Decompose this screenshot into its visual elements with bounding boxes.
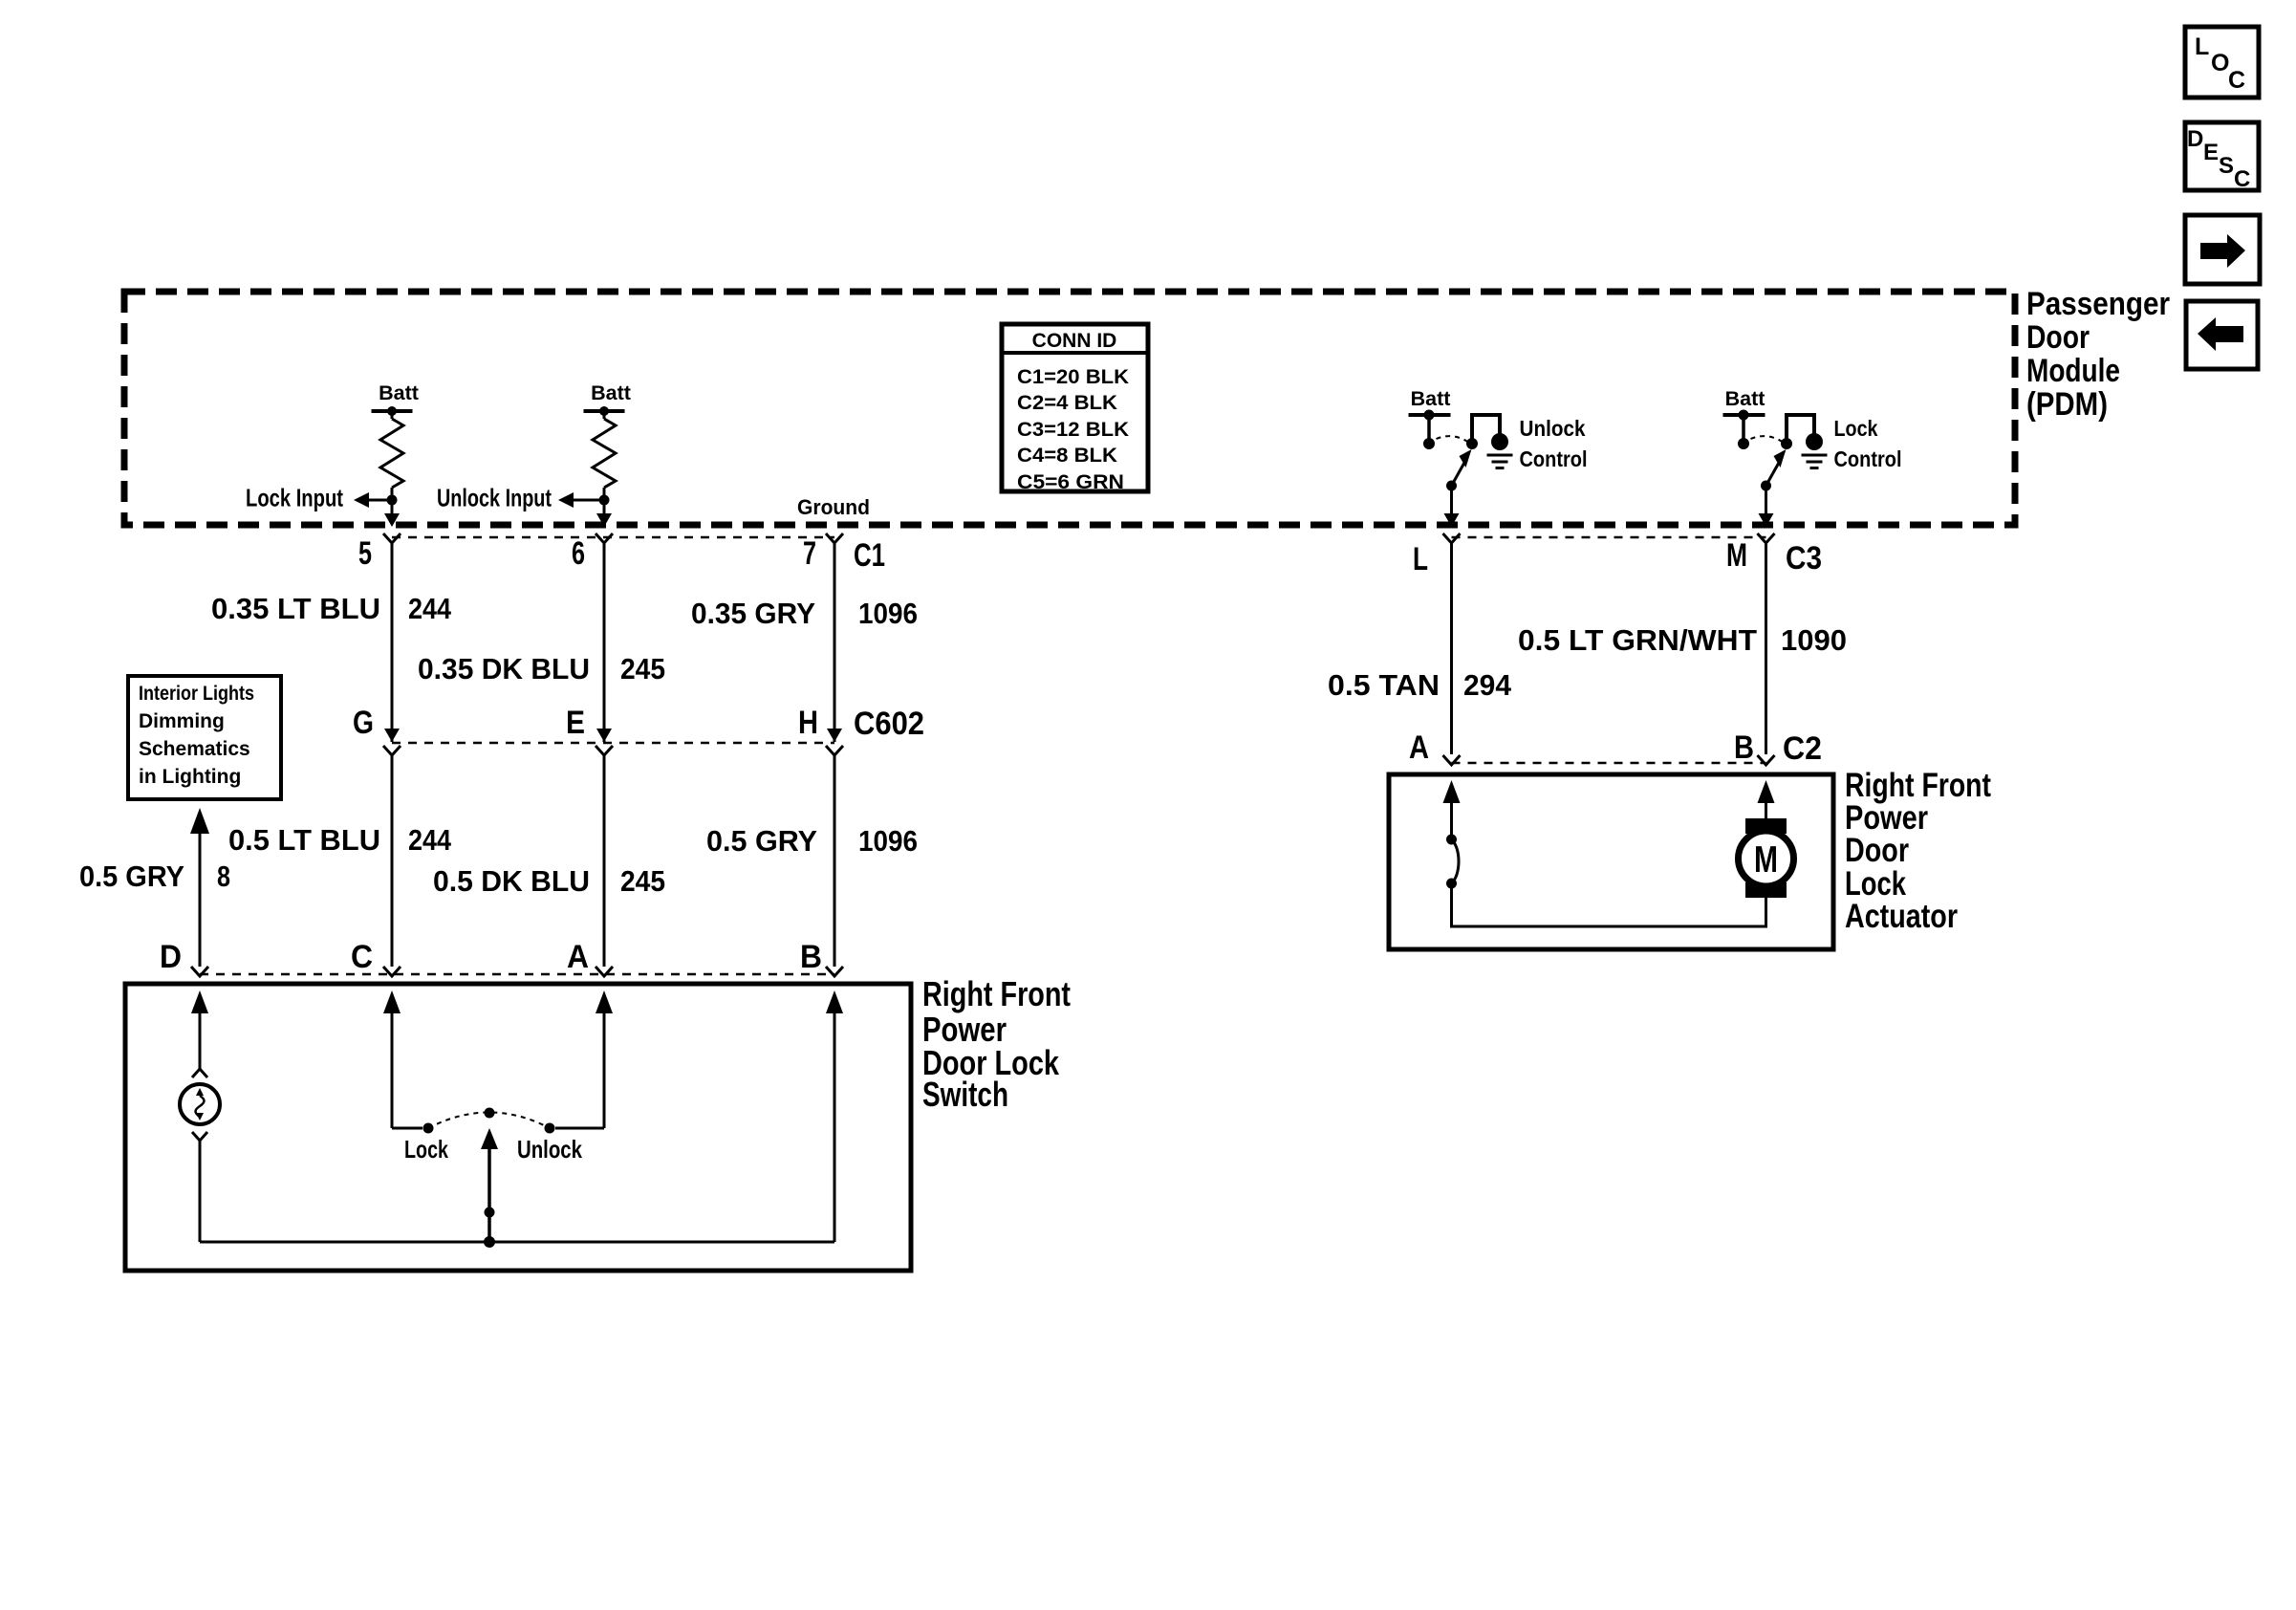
connector C1 pin 5 chevron	[383, 533, 401, 543]
C602 male pin arrow	[827, 729, 842, 742]
svg-text:C2=4 BLK: C2=4 BLK	[1017, 392, 1117, 414]
button LOC	[2185, 27, 2259, 98]
Batt feed bar lock-drive	[1723, 413, 1765, 417]
switch arm unlock-drive	[1452, 462, 1465, 486]
svg-text:1090: 1090	[1781, 623, 1847, 657]
svg-text:0.5 LT BLU: 0.5 LT BLU	[228, 823, 380, 857]
svg-text:0.5 DK BLU: 0.5 DK BLU	[433, 864, 590, 898]
svg-text:D: D	[2187, 126, 2203, 152]
PDM name label	[2026, 286, 2170, 423]
wire 294	[1450, 543, 1453, 754]
wire 1096 lower	[834, 755, 836, 967]
svg-text:Unlock: Unlock	[517, 1135, 582, 1164]
wire Batt to resistor R-unlock	[603, 411, 606, 419]
svg-text:Unlock: Unlock	[1520, 416, 1587, 441]
wire lock throw horizontal	[392, 1127, 422, 1130]
svg-text:Unlock Input: Unlock Input	[437, 484, 552, 512]
switch pivot lock-drive	[1761, 481, 1771, 491]
connector C3 pin M chevron	[1758, 533, 1775, 543]
switch pivot unlock-drive	[1446, 481, 1457, 491]
node Batt unlock-drive	[1424, 410, 1435, 421]
C602 female chevron	[383, 746, 401, 755]
switch box entry arrow	[383, 990, 401, 1013]
svg-text:C: C	[2228, 67, 2245, 94]
svg-text:S: S	[2219, 153, 2234, 179]
svg-text:B: B	[1734, 729, 1754, 766]
wire Batt to resistor R-lock	[391, 411, 394, 419]
svg-text:Module: Module	[2026, 353, 2120, 389]
svg-text:244: 244	[408, 592, 452, 625]
button forward arrow	[2185, 215, 2260, 284]
svg-text:Dimming: Dimming	[139, 710, 225, 732]
motor M1	[1739, 818, 1794, 898]
Passenger Door Module PDM dashed box	[124, 292, 2015, 525]
resistor R-unlock	[593, 419, 616, 488]
svg-text:Ground: Ground	[797, 495, 870, 519]
actuator contact top	[1446, 835, 1457, 845]
node R-lock junction	[387, 495, 398, 506]
arrow into connector unlock-drive	[1444, 513, 1460, 527]
wire R-unlock down	[603, 500, 606, 515]
svg-text:in Lighting: in Lighting	[139, 766, 241, 788]
svg-text:1096: 1096	[858, 824, 918, 858]
node Batt lock-drive	[1739, 410, 1749, 421]
actuator entry arrow B	[1758, 780, 1775, 803]
C602 female chevron	[596, 746, 613, 755]
switch travel dashed arc	[428, 1113, 550, 1129]
switch arm lock-drive	[1766, 462, 1780, 486]
node Batt R-unlock	[599, 406, 609, 416]
svg-text:Interior Lights: Interior Lights	[139, 683, 254, 705]
ground bar3 lock-drive	[1810, 467, 1819, 469]
unlock input arrowhead	[558, 492, 574, 508]
switch arm arrowhead lock-drive	[1774, 449, 1787, 468]
svg-text:Schematics: Schematics	[139, 738, 250, 760]
svg-text:C: C	[2234, 166, 2250, 192]
wire lamp to common	[199, 1141, 202, 1242]
Right Front Power Door Lock Switch box	[125, 984, 911, 1271]
wire unlock throw vertical	[603, 1004, 606, 1128]
svg-text:L: L	[1413, 541, 1428, 577]
lamp top chevron	[192, 1069, 207, 1077]
svg-text:C3: C3	[1786, 540, 1822, 577]
C602 male pin arrow	[596, 729, 612, 742]
svg-text:244: 244	[408, 823, 452, 857]
wire lock throw vertical	[391, 1004, 394, 1128]
svg-text:Batt: Batt	[1411, 387, 1451, 410]
wire 8 dimming	[199, 834, 202, 967]
connector C1 dashed line	[392, 536, 834, 539]
switch actuator shaft	[487, 1140, 491, 1242]
svg-text:(PDM): (PDM)	[2026, 386, 2108, 423]
svg-text:A: A	[567, 939, 589, 975]
svg-text:O: O	[2211, 50, 2229, 76]
switch box entry arrow	[596, 990, 613, 1013]
switch box entry arrow	[826, 990, 843, 1013]
node Batt R-lock	[387, 406, 397, 416]
contact b unlock-drive	[1466, 438, 1478, 449]
illumination lamp	[180, 1084, 220, 1124]
svg-text:Batt: Batt	[1725, 387, 1765, 410]
svg-text:M: M	[1726, 537, 1747, 574]
wire R-lock down	[391, 500, 394, 515]
svg-text:Door: Door	[1845, 832, 1909, 869]
lamp bottom chevron	[192, 1132, 207, 1141]
C2 pin A chevron	[1443, 755, 1461, 765]
svg-text:0.35 DK BLU: 0.35 DK BLU	[418, 652, 590, 685]
actuator contact bottom	[1446, 879, 1457, 889]
fixed contact stub unlock-drive	[1427, 415, 1431, 441]
contact a lock-drive	[1738, 438, 1749, 449]
ground bar2 unlock-drive	[1492, 461, 1508, 464]
Batt feed bar R-unlock	[584, 409, 625, 413]
ground bar1 unlock-drive	[1487, 454, 1513, 457]
svg-text:Lock: Lock	[1834, 416, 1879, 441]
svg-text:0.5 GRY: 0.5 GRY	[706, 824, 817, 858]
connector C602 dashed line	[392, 742, 834, 745]
wire pivot down unlock-drive	[1450, 486, 1453, 515]
switch box entry arrow	[191, 990, 208, 1013]
wire switch common	[200, 1241, 834, 1244]
svg-text:Lock: Lock	[404, 1135, 448, 1164]
resistor R-lock	[380, 419, 403, 488]
contact link lock-drive	[1787, 415, 1814, 442]
svg-text:294: 294	[1463, 668, 1512, 702]
ground dot lock-drive	[1806, 433, 1823, 450]
node common junction	[484, 1236, 495, 1248]
fixed contact stub lock-drive	[1742, 415, 1745, 441]
arrow into connector lock-drive	[1759, 513, 1774, 527]
switch connector pin A chevron	[596, 967, 613, 976]
svg-text:5: 5	[358, 535, 372, 572]
switch connector pin B chevron	[826, 967, 843, 976]
wire 245 upper	[603, 543, 606, 742]
connector C2 dashed line	[1452, 762, 1766, 765]
svg-text:CONN ID: CONN ID	[1032, 330, 1117, 352]
actuator entry arrow A	[1443, 780, 1461, 803]
ground bar2 lock-drive	[1807, 461, 1823, 464]
wire unlock input	[574, 499, 604, 502]
Batt feed bar R-lock	[372, 409, 413, 413]
svg-text:Door: Door	[2026, 319, 2090, 356]
unlock contact	[545, 1123, 555, 1134]
arrow into connector R-unlock	[596, 513, 612, 527]
wire resistor to node R-lock	[391, 488, 394, 500]
connector C3 pin L chevron	[1443, 533, 1461, 543]
wire unlock throw horizontal	[555, 1127, 604, 1130]
node R-unlock junction	[599, 495, 610, 506]
svg-text:C1=20 BLK: C1=20 BLK	[1017, 366, 1129, 388]
svg-text:Control: Control	[1520, 446, 1588, 471]
ground dot unlock-drive	[1491, 433, 1508, 450]
wire actuator return	[1452, 883, 1766, 926]
lock input arrowhead	[354, 492, 369, 508]
contact link unlock-drive	[1472, 415, 1500, 442]
Interior Lights reference box	[128, 676, 281, 799]
node shaft	[485, 1207, 495, 1218]
wire resistor to node R-unlock	[603, 488, 606, 500]
svg-text:C2: C2	[1783, 730, 1822, 767]
svg-text:C1: C1	[854, 537, 885, 574]
actuator switch arc	[1452, 839, 1460, 883]
svg-text:Control: Control	[1834, 446, 1902, 471]
svg-text:6: 6	[572, 535, 585, 572]
connector C1 pin 6 chevron	[596, 533, 613, 543]
svg-text:245: 245	[620, 652, 665, 685]
svg-text:Actuator: Actuator	[1845, 898, 1958, 935]
contact b lock-drive	[1781, 438, 1792, 449]
svg-text:0.35 GRY: 0.35 GRY	[691, 597, 815, 630]
switch actuator arrowhead	[481, 1128, 498, 1149]
svg-text:Lock Input: Lock Input	[246, 484, 343, 512]
wire 1096 in box	[834, 1004, 836, 1242]
arrow into connector R-lock	[384, 513, 400, 527]
svg-text:C: C	[351, 939, 373, 975]
svg-text:Right Front: Right Front	[922, 974, 1071, 1013]
switch connector dashed line	[200, 973, 834, 976]
wire 244 lower	[391, 755, 394, 967]
CONN ID table	[1002, 324, 1148, 493]
button DESC	[2185, 122, 2259, 192]
svg-text:Switch: Switch	[922, 1075, 1008, 1114]
svg-text:Passenger: Passenger	[2026, 286, 2170, 322]
wire lock input	[369, 499, 392, 502]
svg-text:0.5 GRY: 0.5 GRY	[79, 859, 184, 893]
wire to lamp	[199, 1004, 202, 1069]
connector C3 dashed line	[1452, 536, 1766, 539]
svg-text:C3=12 BLK: C3=12 BLK	[1017, 419, 1129, 441]
arrow to interior lights	[190, 808, 209, 834]
wire 245 lower	[603, 755, 606, 967]
dashed switch travel arc lock-drive	[1751, 436, 1783, 442]
svg-text:1096: 1096	[858, 597, 918, 630]
svg-text:0.5 LT GRN/WHT: 0.5 LT GRN/WHT	[1518, 623, 1757, 657]
Right Front Power Door Lock Actuator box	[1389, 774, 1833, 949]
switch connector pin D chevron	[191, 967, 208, 976]
switch connector pin C chevron	[383, 967, 401, 976]
ground bar3 unlock-drive	[1496, 467, 1505, 469]
svg-text:Batt: Batt	[379, 381, 419, 404]
C2 pin B chevron	[1758, 755, 1775, 765]
wire pivot down lock-drive	[1765, 486, 1767, 515]
svg-text:Batt: Batt	[591, 381, 631, 404]
Batt feed bar unlock-drive	[1409, 413, 1451, 417]
svg-text:0.5 TAN: 0.5 TAN	[1328, 668, 1440, 702]
dashed switch travel arc unlock-drive	[1437, 436, 1468, 442]
svg-text:7: 7	[803, 535, 816, 572]
svg-text:0.35 LT BLU: 0.35 LT BLU	[211, 592, 380, 625]
svg-text:C5=6 GRN: C5=6 GRN	[1017, 471, 1124, 493]
svg-text:D: D	[160, 939, 182, 975]
lock contact	[423, 1123, 434, 1134]
svg-text:L: L	[2195, 33, 2209, 60]
contact a unlock-drive	[1423, 438, 1435, 449]
wire 1090	[1765, 543, 1767, 754]
wire A to contact	[1450, 794, 1453, 839]
switch common pole	[485, 1108, 495, 1119]
svg-text:245: 245	[620, 864, 665, 898]
svg-text:C602: C602	[854, 706, 924, 742]
connector C1 pin 7 chevron	[826, 533, 843, 543]
wire B to motor	[1765, 794, 1767, 820]
svg-text:E: E	[566, 705, 585, 741]
svg-text:8: 8	[217, 859, 230, 893]
svg-text:M: M	[1754, 839, 1778, 881]
ground bar1 lock-drive	[1802, 454, 1828, 457]
svg-text:E: E	[2203, 140, 2219, 165]
wire 1096 upper	[834, 543, 836, 742]
C602 male pin arrow	[384, 729, 400, 742]
svg-text:C4=8 BLK: C4=8 BLK	[1017, 445, 1117, 467]
svg-text:H: H	[798, 705, 818, 741]
svg-text:B: B	[800, 939, 822, 975]
wire 244 upper	[391, 543, 394, 742]
C602 female chevron	[826, 746, 843, 755]
svg-text:A: A	[1409, 729, 1429, 766]
svg-text:G: G	[353, 705, 374, 741]
button back arrow	[2186, 301, 2258, 369]
switch arm arrowhead unlock-drive	[1460, 449, 1472, 468]
